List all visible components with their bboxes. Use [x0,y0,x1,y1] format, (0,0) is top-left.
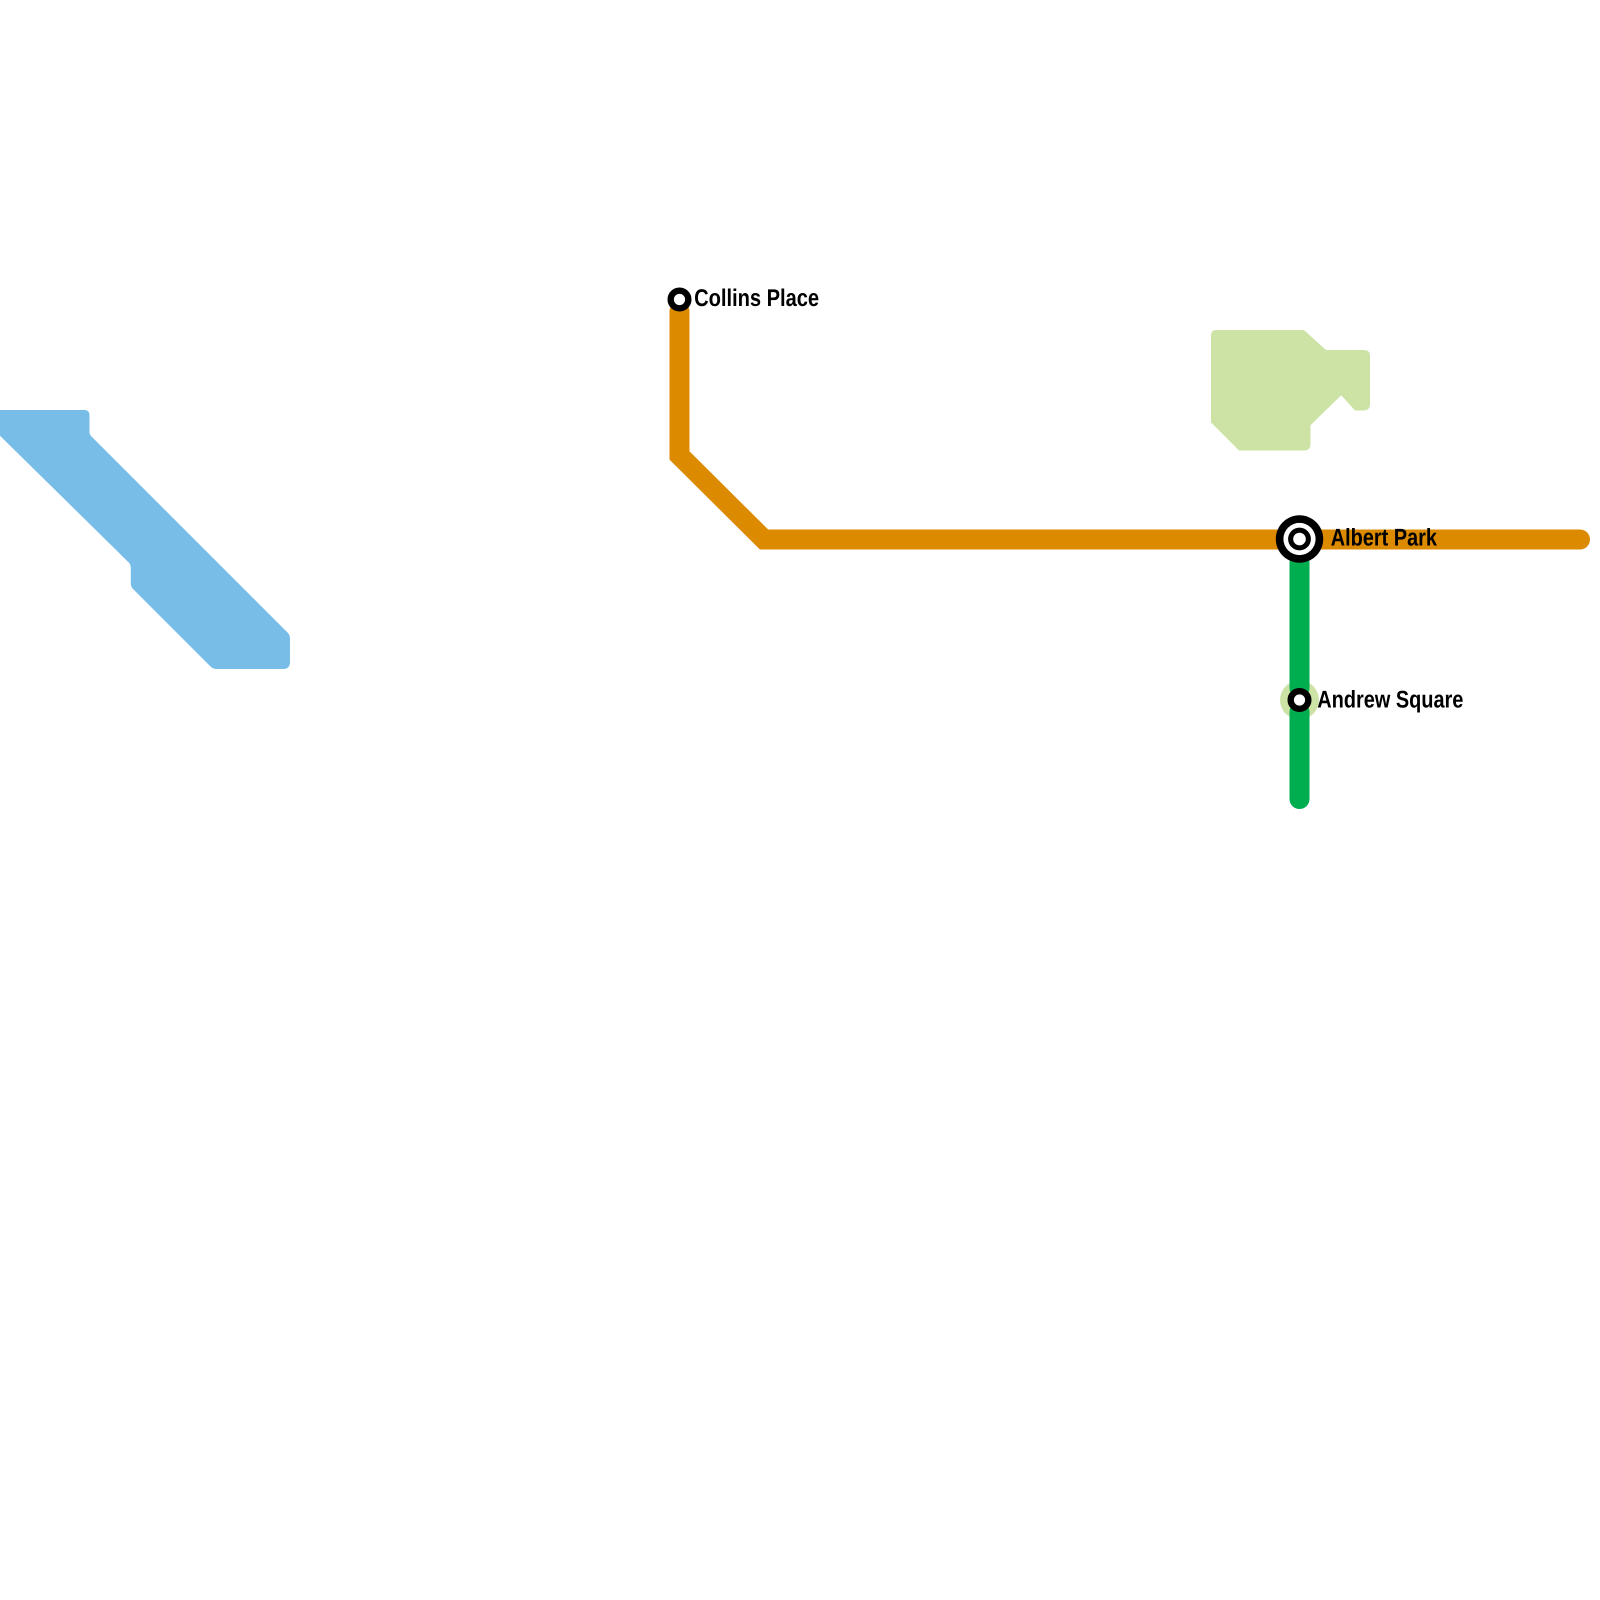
station Collins Place label [695,289,818,307]
station Andrew Square label [1318,690,1463,713]
park circle (Andrew Square halo) [1280,681,1319,720]
green line [1290,563,1310,688]
station Albert Park label [1331,528,1437,546]
station Collins Place marker [671,291,689,309]
interchange Albert Park marker [1276,515,1323,562]
green line segment 2 [1290,712,1310,799]
park [1211,330,1370,451]
river [0,410,290,669]
orange line [680,312,1581,540]
station Andrew Square marker [1291,691,1309,709]
